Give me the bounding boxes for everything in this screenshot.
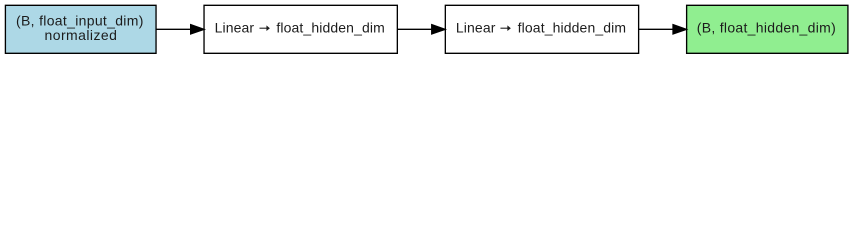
edge arrow fc2 to out [639,25,686,34]
node out: (B, float_hidden_dim) [687,5,848,53]
svg-text:(B, float_input_dim): (B, float_input_dim) [16,12,143,28]
node fc1: Linear -> float_hidden_dim [204,5,397,53]
edge arrow input to fc1 [156,25,204,34]
svg-text:Linear → float_hidden_dim: Linear → float_hidden_dim [215,20,385,36]
arrow glyph in fc2 label [500,27,507,29]
svg-text:Linear → float_hidden_dim: Linear → float_hidden_dim [456,20,626,36]
node input: (B, float_input_dim) normalized [5,5,156,53]
arrow glyph in fc1 label [259,27,266,29]
background [0,0,853,59]
svg-text:(B, float_hidden_dim): (B, float_hidden_dim) [697,20,836,36]
edge arrow fc1 to fc2 [397,25,445,34]
node fc2: Linear -> float_hidden_dim [445,5,638,53]
svg-text:normalized: normalized [45,27,117,43]
